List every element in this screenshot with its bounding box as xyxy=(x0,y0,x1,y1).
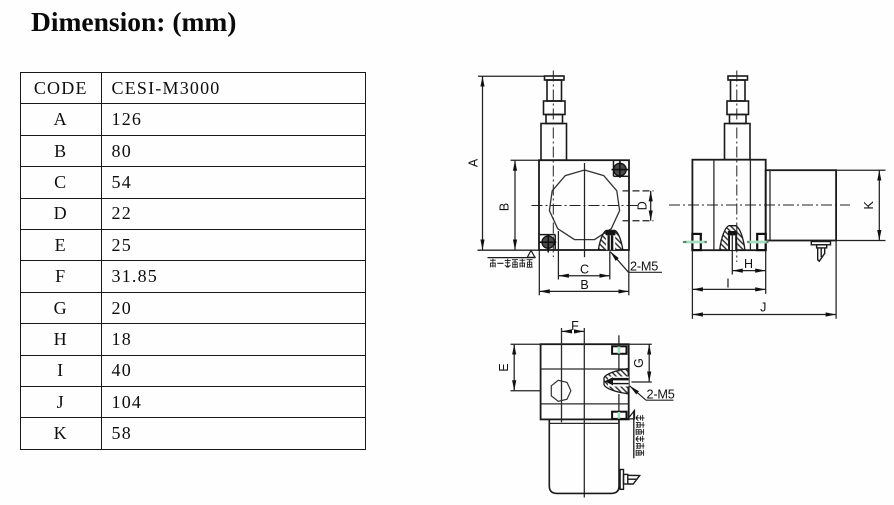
bottom connector body xyxy=(624,474,628,484)
side body inner edge right xyxy=(749,160,751,251)
side sensor housing xyxy=(766,170,836,240)
dome centerline extension down xyxy=(731,234,733,275)
datum triangle front xyxy=(527,251,535,258)
datum text bottom (CJK vertical) xyxy=(636,415,645,456)
svg-text:J: J xyxy=(760,301,766,315)
front M5 bushing dome (hatched) xyxy=(598,230,623,250)
side M5 bushing dome (hatched) xyxy=(720,226,745,250)
svg-text:F: F xyxy=(571,319,579,333)
svg-text:D: D xyxy=(635,201,649,210)
dim E extensions xyxy=(511,344,542,391)
dim F line xyxy=(562,319,585,333)
side horizontal centerline xyxy=(669,204,850,206)
dim E line xyxy=(497,344,514,391)
side housing inner flange xyxy=(769,170,771,240)
side plunger cap xyxy=(725,76,751,160)
svg-text:I: I xyxy=(726,277,729,291)
side left edge extension down xyxy=(691,250,693,319)
dim K extension bottom xyxy=(836,240,885,242)
bottom view block xyxy=(541,344,629,419)
label 2-M5 bottom with leader xyxy=(630,386,675,402)
front plunger stem xyxy=(547,80,562,101)
label 2-M5 front with leader xyxy=(610,252,662,274)
front corner cell top-right xyxy=(614,160,630,176)
front plunger base block xyxy=(541,124,567,161)
side plunger step xyxy=(730,115,747,124)
datum triangle bottom view xyxy=(628,410,635,419)
side tab bottom-right xyxy=(757,234,766,250)
svg-text:K: K xyxy=(862,200,876,209)
svg-text:E: E xyxy=(497,363,511,371)
side plunger base block xyxy=(725,124,751,160)
baseline extension left xyxy=(478,249,540,251)
dim C line xyxy=(558,262,609,276)
side plunger stem xyxy=(731,80,746,101)
green datum line left tab xyxy=(683,241,707,244)
bolt bottom-left xyxy=(540,235,557,253)
bottom inner vertical F-left xyxy=(561,328,563,422)
bottom connector nib xyxy=(628,475,640,484)
dim B left line xyxy=(498,160,516,250)
bottom tab top-right xyxy=(612,346,626,354)
green mark bottom tab xyxy=(618,412,621,419)
title xyxy=(31,6,236,38)
side tab bottom-left xyxy=(692,234,700,250)
side vertical centerline xyxy=(736,71,738,263)
dim B-left extension xyxy=(511,159,540,161)
svg-text:2-M5: 2-M5 xyxy=(630,259,658,273)
dim B-bottom extensions xyxy=(539,250,629,295)
front plunger cap xyxy=(541,76,567,160)
front wire drum polygon xyxy=(549,170,619,240)
dim K line xyxy=(862,170,880,240)
green mark top tab xyxy=(618,347,621,354)
dim A line xyxy=(467,76,483,250)
bottom view centerline vertical xyxy=(583,328,585,498)
front plunger step xyxy=(546,115,563,124)
bottom block inner line upper xyxy=(541,368,629,370)
side connector body xyxy=(817,245,827,248)
dim J line xyxy=(692,301,836,315)
all drawing groups appended below xyxy=(467,71,663,296)
motor can top flange line xyxy=(549,422,619,424)
front corner cell bottom-left xyxy=(539,235,555,250)
green datum line right tab xyxy=(747,241,769,244)
svg-text:C: C xyxy=(580,262,589,276)
svg-text:2-M5: 2-M5 xyxy=(647,388,675,402)
dim D line xyxy=(635,191,650,221)
dim K extension top xyxy=(836,169,885,171)
dimension table xyxy=(20,72,366,450)
bottom connector flange xyxy=(620,470,640,490)
dim H line xyxy=(732,257,765,271)
dim G extensions xyxy=(629,344,652,382)
datum leader line vertical xyxy=(633,411,635,459)
side body inner edge left xyxy=(713,160,715,251)
dim G line xyxy=(632,344,649,382)
front vertical centerline xyxy=(552,71,554,258)
bolt top-right xyxy=(612,160,629,178)
dim I line xyxy=(692,277,765,291)
bottom hex boss xyxy=(551,380,571,401)
datum label underline front xyxy=(488,257,536,259)
bottom M5 bushing dome (hatched, pointing left) xyxy=(604,369,629,394)
front view body xyxy=(539,160,629,250)
bottom screw centerline xyxy=(618,335,620,422)
side connector prong xyxy=(818,248,825,261)
dim D extension lines xyxy=(623,191,654,221)
dim C extensions xyxy=(558,231,609,280)
front plunger nut block xyxy=(544,101,566,115)
svg-text:B: B xyxy=(498,203,512,211)
bottom block inner line lower xyxy=(541,403,629,405)
front horizontal centerline xyxy=(532,205,641,207)
bottom motor can xyxy=(549,420,619,494)
side view body xyxy=(692,160,765,251)
side connector flange xyxy=(811,242,830,262)
dim B bottom line xyxy=(539,278,629,292)
bottom tab bottom-right xyxy=(612,412,626,419)
svg-text:A: A xyxy=(467,158,481,167)
side plunger nut block xyxy=(727,101,749,115)
dim J extension right xyxy=(835,241,837,319)
svg-text:B: B xyxy=(580,278,588,292)
datum text front (CJK) xyxy=(490,259,533,268)
svg-text:G: G xyxy=(632,358,646,368)
side right edge extension down xyxy=(765,250,767,294)
svg-text:H: H xyxy=(744,257,753,271)
dim A extension top xyxy=(478,75,545,77)
front drum vertical centerline xyxy=(584,163,586,257)
